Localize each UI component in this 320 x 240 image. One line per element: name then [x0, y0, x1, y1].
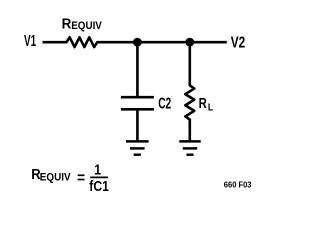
svg-text:R: R — [199, 96, 208, 112]
junction node 1 — [133, 38, 142, 47]
ground (below C2) — [126, 141, 149, 154]
capacitor C2 — [121, 97, 154, 109]
wire C2 to ground — [136, 109, 139, 141]
wire RL to ground — [189, 120, 192, 142]
svg-text:L: L — [208, 102, 214, 113]
svg-text:660 F03: 660 F03 — [224, 180, 252, 189]
formula R_EQUIV = 1/fC1 — [31, 162, 109, 195]
wire node 2 to V2 — [190, 41, 227, 44]
wire V1 to R_EQUIV — [43, 41, 68, 44]
svg-text:EQUIV: EQUIV — [40, 172, 71, 184]
svg-text:1: 1 — [94, 162, 101, 179]
ground (below RL) — [179, 141, 200, 154]
wire node 1 to C2 — [136, 42, 139, 97]
svg-text:R: R — [62, 15, 72, 32]
wire node 2 to RL — [189, 42, 192, 85]
wire R_EQUIV to node 1 — [97, 41, 137, 44]
svg-text:fC1: fC1 — [89, 178, 109, 195]
svg-text:V1: V1 — [24, 33, 36, 50]
wire node 1 to node 2 — [137, 41, 189, 44]
resistor R_EQUIV — [67, 37, 98, 47]
resistor RL — [185, 85, 194, 119]
svg-text:C2: C2 — [158, 96, 171, 113]
junction node 2 — [185, 38, 194, 47]
svg-text:V2: V2 — [231, 34, 245, 51]
svg-text:EQUIV: EQUIV — [71, 20, 102, 32]
